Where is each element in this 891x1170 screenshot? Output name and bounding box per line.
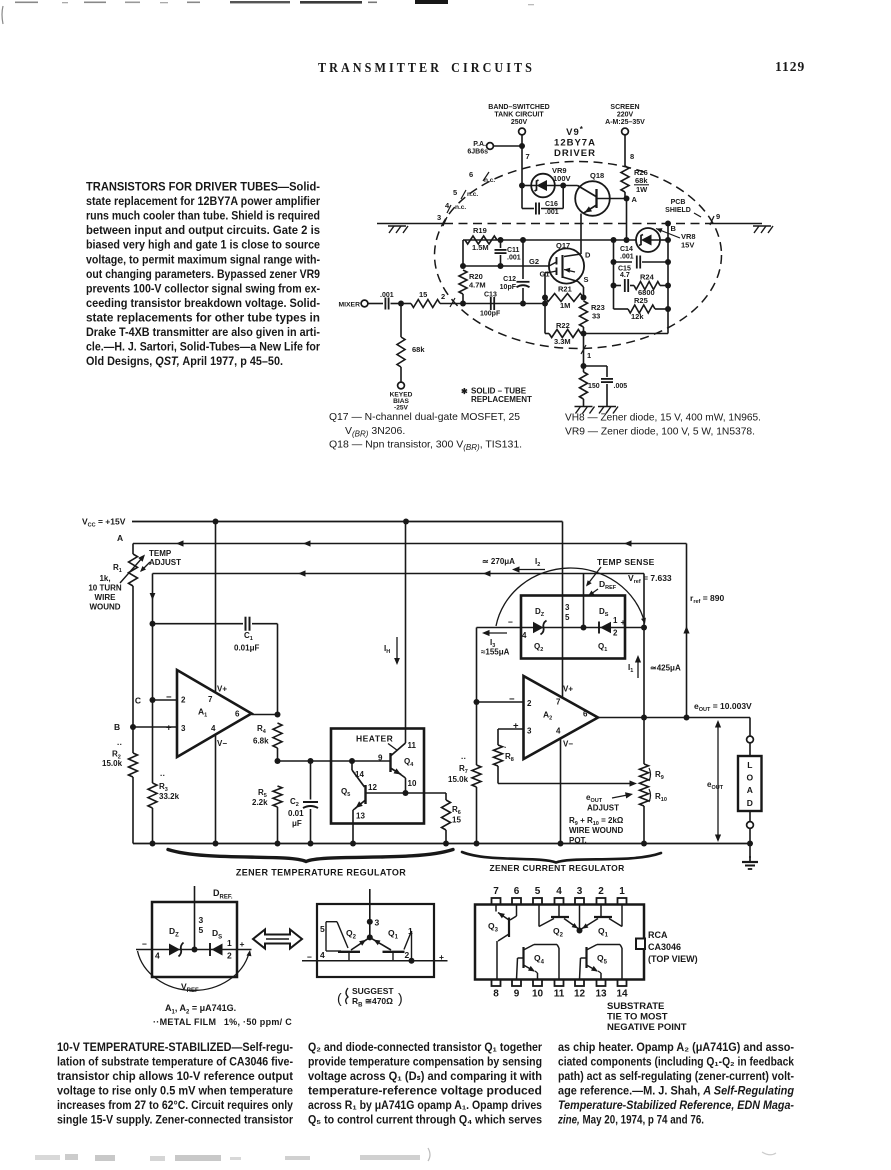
svg-text:11: 11 <box>554 989 565 1000</box>
svg-text:7: 7 <box>493 886 499 897</box>
transistors Q2 Q1 in DIP <box>551 916 569 918</box>
resistor R26 68k 1W <box>621 166 629 192</box>
ground right of shield <box>753 225 771 227</box>
svg-text:G2: G2 <box>529 257 539 266</box>
svg-text:DZ: DZ <box>535 607 545 618</box>
svg-text:0.01μF: 0.01μF <box>234 644 259 653</box>
svg-text:12BY7A: 12BY7A <box>554 138 596 149</box>
ground below load <box>749 844 751 859</box>
svg-text:across R₁ by μA741G opamp A₁.: across R₁ by μA741G opamp A₁. Opamp driv… <box>308 1099 542 1112</box>
wire A1 pin3 from B node <box>133 726 177 728</box>
svg-text:Q₅ to control current through: Q₅ to control current through Q₄ which s… <box>308 1114 542 1127</box>
wire screen terminal down to R26, pin 8 <box>624 135 626 166</box>
transistor Q5 in DIP <box>585 947 587 968</box>
svg-text:DS: DS <box>212 928 222 941</box>
svg-text:A: A <box>117 533 123 543</box>
transistor Q3 in DIP <box>508 918 510 938</box>
svg-text:n.c.: n.c. <box>467 191 478 198</box>
resistor R23 33 <box>580 301 588 327</box>
svg-text:12: 12 <box>574 989 586 1000</box>
wire reference branch x=644 <box>643 574 645 765</box>
svg-text:6.8k: 6.8k <box>253 737 269 746</box>
wire A1 V+ pin7 from Vcc <box>215 522 217 693</box>
resistor R20 4.7M <box>459 270 467 294</box>
svg-text:runs much cooler than tube. Sh: runs much cooler than tube. Shield is re… <box>86 209 320 223</box>
svg-text:WOUND: WOUND <box>89 603 120 612</box>
svg-text:R25: R25 <box>634 296 648 305</box>
svg-text:prevents 100-V collector signa: prevents 100-V collector signal swing fr… <box>86 281 320 295</box>
svg-text:C12: C12 <box>503 276 516 283</box>
svg-text:provide temperature compensati: provide temperature compensation by sens… <box>308 1056 542 1069</box>
svg-text:4: 4 <box>320 950 325 960</box>
transistor Q4 in DIP <box>522 947 524 968</box>
svg-text:7: 7 <box>208 695 213 704</box>
svg-text:−: − <box>509 694 515 705</box>
diode line through DREF box <box>477 627 645 629</box>
svg-text:DRIVER: DRIVER <box>554 148 596 159</box>
svg-text:R9: R9 <box>655 770 664 781</box>
wire P.A. to node 7 <box>494 145 523 147</box>
svg-text:15: 15 <box>452 816 461 825</box>
svg-text:A2: A2 <box>543 710 552 722</box>
wire R8 to wiper arrow <box>498 783 633 785</box>
svg-text:68k: 68k <box>635 176 648 185</box>
svg-text:lation of substrate temperatur: lation of substrate temperature of CA304… <box>57 1056 293 1069</box>
capacitor C1 0.01uF feedback <box>153 623 244 625</box>
svg-text:11: 11 <box>408 741 417 750</box>
svg-text:R7: R7 <box>459 764 468 775</box>
svg-text:Vref = 7.633: Vref = 7.633 <box>628 573 672 585</box>
wire tank terminal down, pin 7 <box>521 135 523 185</box>
svg-text:R19: R19 <box>473 226 487 235</box>
svg-text:Q1: Q1 <box>598 926 609 939</box>
svg-text:6: 6 <box>469 170 473 179</box>
zener diode VR8 15V <box>636 228 660 252</box>
bias line y=240 R19..VR8 <box>463 239 636 241</box>
svg-text:rref = 890: rref = 890 <box>690 593 724 605</box>
wire VR9 left node <box>522 185 531 187</box>
svg-text:−: − <box>508 617 513 627</box>
svg-text:+: + <box>166 723 172 734</box>
svg-text:A: A <box>632 195 638 204</box>
svg-text:4.7M: 4.7M <box>469 281 486 290</box>
svg-text:Old Designs, QST, April 1977,: Old Designs, QST, April 1977, p 45–50. <box>86 354 283 368</box>
svg-text:··: ·· <box>461 754 466 763</box>
svg-text:1: 1 <box>619 886 625 897</box>
svg-text:RB ≅470Ω: RB ≅470Ω <box>352 996 393 1009</box>
double arrow symbol <box>253 930 302 949</box>
svg-text:voltage across Q₁ (Dₛ) and com: voltage across Q₁ (Dₛ) and comparing it … <box>308 1070 542 1083</box>
VREF arc <box>138 951 250 990</box>
svg-text:n.c.: n.c. <box>484 177 495 184</box>
svg-text:9: 9 <box>514 989 520 1000</box>
svg-text:15.0k: 15.0k <box>102 759 123 768</box>
svg-text:B: B <box>671 224 677 233</box>
wire source down <box>578 282 584 288</box>
DIP package CA3046 body <box>475 905 644 980</box>
svg-text:C13: C13 <box>484 292 497 299</box>
svg-text:Q17: Q17 <box>556 241 570 250</box>
svg-text:1.5M: 1.5M <box>472 243 489 252</box>
svg-text:.001: .001 <box>545 209 559 216</box>
svg-text:O: O <box>746 773 753 783</box>
svg-text:+: + <box>513 721 519 732</box>
svg-text:Q3: Q3 <box>488 921 499 934</box>
svg-text:WIRE WOUND: WIRE WOUND <box>569 826 623 835</box>
svg-text:A1: A1 <box>198 707 207 719</box>
svg-text:between input and output circu: between input and output circuits. Gate … <box>86 223 320 237</box>
svg-text:4: 4 <box>155 951 160 961</box>
svg-text:3: 3 <box>181 724 186 733</box>
svg-text:A1, A2 = μA741G.: A1, A2 = μA741G. <box>165 1003 236 1016</box>
svg-text:(: ( <box>337 990 342 1006</box>
svg-text:A-M:25–35V: A-M:25–35V <box>605 119 645 126</box>
svg-text:3: 3 <box>565 603 570 612</box>
wire G1 down to mixer line <box>545 272 549 274</box>
node B wire <box>665 221 671 227</box>
brace zener temperature regulator <box>168 850 453 862</box>
G2 line <box>463 265 549 267</box>
svg-text:ADJUST: ADJUST <box>149 558 181 567</box>
svg-text:C1: C1 <box>244 631 253 642</box>
svg-text:PCB: PCB <box>671 199 686 206</box>
svg-text:2: 2 <box>441 292 445 301</box>
svg-text:Q1: Q1 <box>388 928 399 941</box>
resistor R19 1.5M <box>465 236 497 244</box>
svg-text:R10: R10 <box>655 792 667 803</box>
svg-text:100V: 100V <box>553 174 571 183</box>
svg-text:0.01: 0.01 <box>288 809 304 818</box>
svg-text:eOUT = 10.003V: eOUT = 10.003V <box>694 701 752 713</box>
wire R26 to node A <box>624 192 626 199</box>
svg-text:eOUT: eOUT <box>586 793 603 804</box>
potentiometer R9 R10 <box>640 764 649 785</box>
svg-text:100pF: 100pF <box>480 311 501 318</box>
wire A1 pin2 from C node <box>153 699 178 701</box>
scan artifacts bottom edge <box>35 1155 60 1160</box>
svg-text:4: 4 <box>556 727 561 736</box>
svg-text:2: 2 <box>598 886 604 897</box>
capacitor C2 0.01uF <box>310 761 312 800</box>
svg-text:P.A.: P.A. <box>473 141 486 148</box>
svg-text:+: + <box>621 617 626 627</box>
svg-text:ceeding transistor breakdown v: ceeding transistor breakdown voltage. So… <box>86 296 320 310</box>
svg-text:transistor chip allows 10-V re: transistor chip allows 10-V reference ou… <box>57 1070 293 1083</box>
svg-text:12k: 12k <box>631 312 644 321</box>
svg-text:Q2: Q2 <box>553 926 564 939</box>
svg-text:(TOP VIEW): (TOP VIEW) <box>648 954 698 964</box>
transistor Q1 bottom-middle <box>383 951 405 953</box>
svg-text:ZENER TEMPERATURE REGULATOR: ZENER TEMPERATURE REGULATOR <box>236 868 406 878</box>
zener diode DZ (Q2) <box>533 622 544 633</box>
svg-text:B: B <box>114 722 120 732</box>
svg-text:220V: 220V <box>617 112 634 119</box>
svg-text:R4: R4 <box>257 724 267 735</box>
svg-text:V9*: V9* <box>566 125 584 138</box>
svg-text:10-V TEMPERATURE-STABILIZED—S: 10-V TEMPERATURE-STABILIZED—Self-regu- <box>57 1041 293 1054</box>
svg-text:state replacements for other t: state replacements for other tube types … <box>86 310 320 324</box>
svg-text:7: 7 <box>556 698 561 707</box>
svg-text:1M: 1M <box>560 301 570 310</box>
svg-text:VREF: VREF <box>181 982 199 995</box>
svg-text:+: + <box>439 952 444 962</box>
svg-text:−: − <box>166 692 172 703</box>
wire A2 minus line <box>477 701 524 703</box>
resistor R6 15 <box>406 792 447 794</box>
wire R23 bottom to node 1 <box>583 327 585 366</box>
svg-text:.001: .001 <box>380 292 394 299</box>
svg-text:R1: R1 <box>113 563 122 574</box>
svg-text:R21: R21 <box>558 285 572 294</box>
svg-text:state replacement for 12BY7A p: state replacement for 12BY7A power ampli… <box>86 194 320 208</box>
svg-text:··: ·· <box>117 740 122 749</box>
svg-text:VH8 — Zener diode, 15 V, 400 m: VH8 — Zener diode, 15 V, 400 mW, 1N965. <box>565 412 761 424</box>
bottom rail <box>133 843 750 845</box>
svg-text:1: 1 <box>227 938 232 948</box>
svg-text:68k: 68k <box>412 345 425 354</box>
wire R19 corner to G2 line <box>462 240 464 266</box>
svg-text:5: 5 <box>199 925 204 935</box>
wire feedback rail A <box>133 543 687 545</box>
wire Vcc rail <box>132 521 563 523</box>
svg-text:as chip heater. Opamp A₂ (μA74: as chip heater. Opamp A₂ (μA741G) and as… <box>558 1041 794 1054</box>
svg-text:C: C <box>135 696 141 706</box>
diode line <box>136 949 252 951</box>
svg-text:CA3046: CA3046 <box>648 942 681 952</box>
svg-text:−: − <box>142 939 147 949</box>
svg-text:n.c.: n.c. <box>455 204 466 211</box>
svg-text:··METAL FILM 1%, ·50 ppm/ C: ··METAL FILM 1%, ·50 ppm/ C <box>153 1017 292 1027</box>
diode DS bottom-left <box>212 944 223 956</box>
bottom-middle box <box>317 904 434 977</box>
svg-text:V+: V+ <box>217 685 227 694</box>
resistor R7 15.0k <box>476 702 478 765</box>
svg-text:1: 1 <box>613 616 618 625</box>
svg-text:Q1: Q1 <box>598 642 607 653</box>
svg-text:10pF: 10pF <box>500 284 517 291</box>
svg-text:eOUT: eOUT <box>707 780 724 791</box>
svg-text:V−: V− <box>563 740 573 749</box>
svg-text:TEMP SENSE: TEMP SENSE <box>597 557 655 567</box>
capacitor C15 4.7 and resistor R24 6800 <box>614 285 622 287</box>
svg-text:A: A <box>747 785 753 795</box>
scan artifacts top edge <box>15 2 38 4</box>
svg-text:3: 3 <box>437 213 441 222</box>
dashed PCB shield ellipse <box>435 162 722 349</box>
shield pin tick marks <box>483 172 489 181</box>
svg-text:8: 8 <box>630 152 634 161</box>
svg-text:VCC = +15V: VCC = +15V <box>82 517 126 529</box>
heater box <box>331 729 424 824</box>
svg-text:ZENER CURRENT REGULATOR: ZENER CURRENT REGULATOR <box>489 863 624 873</box>
dashed shield partition line <box>444 223 711 225</box>
svg-text:4: 4 <box>211 724 216 733</box>
svg-text:R22: R22 <box>556 321 570 330</box>
svg-text:3.3M: 3.3M <box>554 337 571 346</box>
svg-text:5: 5 <box>565 613 570 622</box>
bottom-left box <box>152 902 237 977</box>
capacitor C14 .001 <box>614 261 633 263</box>
svg-text:Q5: Q5 <box>341 787 350 798</box>
capacitor C13 100pF <box>490 297 492 310</box>
op-amp A1 <box>177 670 252 757</box>
svg-text:VR9 — Zener diode, 100 V, 5 W,: VR9 — Zener diode, 100 V, 5 W, 1N5378. <box>565 426 755 438</box>
brace zener current regulator <box>462 852 661 863</box>
svg-text:.001: .001 <box>620 254 634 261</box>
svg-text:single 15-V supply. Zener-conn: single 15-V supply. Zener-connected tran… <box>57 1114 293 1127</box>
resistor 68k keyed bias <box>400 304 402 338</box>
wire rref from rail A <box>686 544 688 718</box>
resistor R5 2.2k <box>273 786 282 807</box>
svg-text:8: 8 <box>493 989 499 1000</box>
plus minus line bottom-middle <box>302 960 448 962</box>
svg-text:13: 13 <box>595 989 607 1000</box>
svg-text:≃ 270μA: ≃ 270μA <box>482 557 515 566</box>
svg-text:Q2: Q2 <box>346 928 357 941</box>
svg-text:C11: C11 <box>507 247 520 254</box>
svg-text:ADJUST: ADJUST <box>587 804 619 813</box>
pin 3 wire bottom-middle <box>369 889 371 937</box>
svg-text:Q2: Q2 <box>534 642 543 653</box>
svg-text:3: 3 <box>199 915 204 925</box>
transistor Q18 <box>575 181 610 216</box>
svg-text:3: 3 <box>577 886 583 897</box>
svg-text:13: 13 <box>356 812 365 821</box>
pin 3/5 wire <box>194 886 196 950</box>
svg-text:RCA: RCA <box>648 930 668 940</box>
svg-text:+: + <box>240 939 245 949</box>
svg-text:2.2k: 2.2k <box>252 798 268 807</box>
svg-text:6: 6 <box>235 710 240 719</box>
DIP notch <box>636 939 645 950</box>
svg-text:14: 14 <box>616 989 628 1000</box>
op-amp A2 <box>524 676 599 759</box>
svg-text:V−: V− <box>217 739 227 748</box>
svg-text:zine, May 20, 1974, p 74 and 7: zine, May 20, 1974, p 74 and 76. <box>557 1114 704 1127</box>
svg-text:6: 6 <box>583 710 588 719</box>
svg-text:Q₂ and diode-connected transis: Q₂ and diode-connected transistor Q₁ tog… <box>308 1041 542 1054</box>
svg-text:150: 150 <box>588 383 600 390</box>
capacitor .001 input <box>384 298 386 310</box>
svg-text:1W: 1W <box>636 185 648 194</box>
svg-text:12: 12 <box>368 783 377 792</box>
transistor Q5 <box>349 758 355 764</box>
svg-text:33: 33 <box>592 312 600 321</box>
svg-text:Q5: Q5 <box>597 953 608 966</box>
svg-text:increases from 27 to 62°C. Cir: increases from 27 to 62°C. Circuit requi… <box>57 1099 293 1112</box>
svg-text:≈155μA: ≈155μA <box>481 648 510 657</box>
resistor R8 plus input <box>498 728 524 730</box>
svg-text:15: 15 <box>419 290 427 299</box>
svg-text:TANK CIRCUIT: TANK CIRCUIT <box>494 112 544 119</box>
svg-text:BAND–SWITCHED: BAND–SWITCHED <box>488 104 549 111</box>
svg-text:POT.: POT. <box>569 836 587 845</box>
svg-text:DREF.: DREF. <box>213 888 233 901</box>
svg-text:temperature-reference voltage: temperature-reference voltage produced <box>308 1085 542 1098</box>
transistor Q2 bottom-middle <box>338 951 360 953</box>
svg-text:10: 10 <box>532 989 544 1000</box>
svg-text:Q4: Q4 <box>404 757 414 768</box>
wire Vcc corner down to A2 V+ <box>562 522 564 699</box>
svg-text:9: 9 <box>716 212 720 221</box>
wire left rail x=133 down to bottom <box>132 586 134 753</box>
svg-text:WIRE: WIRE <box>95 593 117 602</box>
svg-text:Q18 — Npn transistor, 300 V(BR: Q18 — Npn transistor, 300 V(BR), TIS131. <box>329 439 522 453</box>
svg-text:15V: 15V <box>681 241 694 250</box>
wire A2 output line <box>598 717 750 719</box>
svg-text:IH: IH <box>384 644 390 655</box>
svg-text:Q18: Q18 <box>590 171 604 180</box>
svg-text:S: S <box>584 275 589 284</box>
svg-text:C2: C2 <box>290 797 299 808</box>
svg-text:R24: R24 <box>640 273 655 282</box>
resistor R21 1M <box>545 294 584 302</box>
svg-text:SHIELD: SHIELD <box>665 207 691 214</box>
svg-text:R8: R8 <box>505 752 514 763</box>
wire node 761 to Q4 base <box>278 760 390 762</box>
svg-text:SUGGEST: SUGGEST <box>352 986 394 996</box>
svg-text:TIE TO MOST: TIE TO MOST <box>607 1012 668 1023</box>
svg-text:1129: 1129 <box>775 59 805 74</box>
svg-text:10: 10 <box>408 779 417 788</box>
svg-text:·: · <box>504 743 507 752</box>
svg-text:DS: DS <box>599 607 609 618</box>
LOAD box <box>749 718 751 737</box>
svg-text:2: 2 <box>613 629 618 638</box>
wire VR9 right to Q18 base node <box>555 185 578 187</box>
svg-text:SUBSTRATE: SUBSTRATE <box>607 1001 664 1012</box>
svg-text:I1: I1 <box>628 663 633 674</box>
svg-text:SCREEN: SCREEN <box>610 104 639 111</box>
svg-text:≃425μA: ≃425μA <box>650 664 681 673</box>
wire A2 V- pin4 to rail <box>560 739 562 844</box>
resistor R3 33.2k <box>148 783 157 808</box>
label I1 425uA with arrow <box>637 658 639 678</box>
svg-text:5: 5 <box>535 886 541 897</box>
svg-text:out changing parameters. Bypas: out changing parameters. Bypassed zener … <box>86 267 320 281</box>
DIP bottom pins 8..14 <box>492 980 501 987</box>
svg-text:path) act as self-regulating (: path) act as self-regulating (zener-curr… <box>558 1070 794 1083</box>
svg-text:··: ·· <box>160 771 165 780</box>
capacitor C16 .001 bypass loop <box>521 186 523 209</box>
wire A1 output node <box>252 714 278 716</box>
MOSFET Q17 dual gate <box>549 248 584 283</box>
svg-text:TRANSISTORS FOR DRIVER TUBES—S: TRANSISTORS FOR DRIVER TUBES—Solid- <box>86 180 320 194</box>
capacitor C11 .001 <box>500 240 502 248</box>
svg-text:Q4: Q4 <box>534 953 545 966</box>
svg-text:D: D <box>585 251 591 260</box>
svg-text:V(BR) 3N206.: V(BR) 3N206. <box>345 425 405 439</box>
svg-text:L: L <box>747 760 752 770</box>
resistor R25 12k <box>614 308 629 310</box>
wire C-node vertical x=152.5 <box>150 621 156 627</box>
svg-text:3: 3 <box>375 918 380 928</box>
potentiometer R1 TEMP ADJUST <box>129 554 138 586</box>
svg-text:μF: μF <box>292 819 302 828</box>
eOUT measurement arrow <box>717 722 719 840</box>
svg-text:cle.—H. J. Sartori, Solid-Tube: cle.—H. J. Sartori, Solid-Tubes—a New Li… <box>86 340 320 354</box>
wire diode line left corner down to A2 minus <box>476 628 478 703</box>
svg-text:V+: V+ <box>563 685 573 694</box>
svg-text:✱: ✱ <box>461 387 468 396</box>
svg-text:1k,: 1k, <box>99 574 110 583</box>
wire node A down to bias line <box>626 199 628 241</box>
resistor R2 15.0k <box>129 753 138 777</box>
svg-text:Drake T-4XB transmitter are al: Drake T-4XB transmitter are also given i… <box>86 325 320 339</box>
svg-text:15.0k: 15.0k <box>448 775 469 784</box>
svg-text:2: 2 <box>227 951 232 961</box>
svg-text:3: 3 <box>527 727 532 736</box>
